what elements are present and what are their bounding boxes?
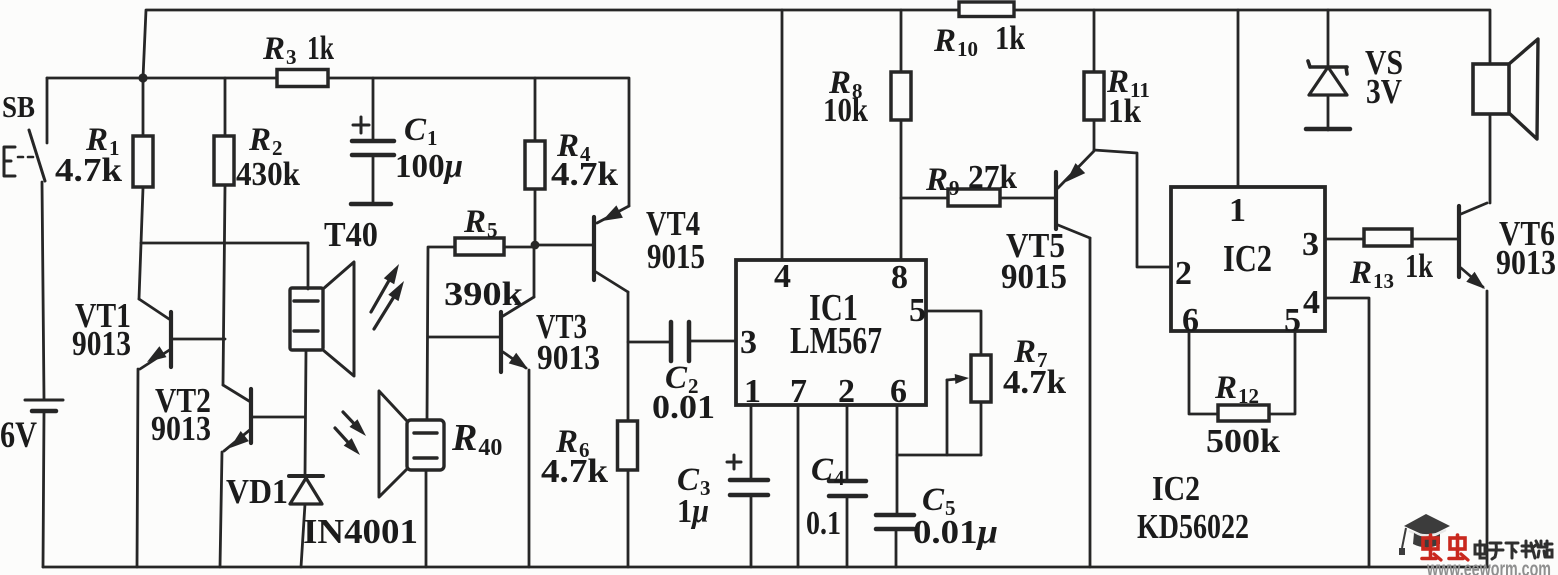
label R13 value 1k (1405, 248, 1433, 285)
wire: R1 to VT1 collector (139, 188, 143, 299)
label VS (1365, 43, 1403, 82)
wire: IC1 pin 1 to C3 (750, 406, 753, 479)
potentiometer R7 (971, 355, 991, 402)
resistor R5 (455, 238, 504, 255)
wire: R1/VT1 node to T40 branch (141, 242, 308, 245)
svg-text:R12: R12 (1214, 370, 1259, 408)
svg-text:100μ: 100μ (395, 148, 463, 185)
op-amp IC1 LM567 box (736, 260, 926, 405)
zener VS bottom terminal bar (1306, 127, 1350, 132)
pin 5 of IC2 (1284, 302, 1301, 339)
svg-text:1μ: 1μ (677, 493, 709, 530)
wire: IC1 pin 4 to top rail (781, 10, 784, 259)
wire: R2 to VT1 base and VT2 collector (223, 186, 225, 385)
transistor VT5 (1056, 151, 1094, 238)
svg-text:R5: R5 (463, 204, 498, 242)
wire: R8 to IC1 pin 8 (900, 120, 903, 259)
svg-text:6: 6 (890, 373, 907, 410)
wire: R5 right end to R4 node (504, 246, 535, 249)
pin 5 of IC1 (909, 292, 926, 329)
transistor VT2 (223, 385, 305, 451)
T40 emitted wave arrow 1 (371, 264, 399, 312)
transducer T40 horn (323, 262, 354, 376)
label C5 (922, 482, 956, 520)
pin 6 of IC1 (890, 373, 907, 410)
watermark red character chong 2 (1449, 535, 1468, 560)
svg-text:9013: 9013 (1496, 243, 1556, 282)
diode VD1 cathode bar (289, 474, 323, 478)
switch SB blade (29, 130, 45, 181)
label IC2 designator (1152, 469, 1200, 508)
transistor VT6 (1459, 203, 1487, 289)
svg-text:4.7k: 4.7k (541, 453, 608, 490)
svg-text:1k: 1k (1108, 93, 1141, 130)
label R5 (463, 204, 498, 242)
watermark text dianzi xiazai zhan (1475, 541, 1552, 559)
svg-text:3: 3 (740, 324, 757, 361)
pin 8 of IC1 (891, 259, 908, 296)
battery GB 6V positive plate (25, 399, 63, 402)
pin 7 of IC1 (790, 373, 807, 410)
svg-text:R2: R2 (248, 122, 283, 160)
svg-text:T40: T40 (324, 215, 378, 254)
wire: R5 left end to R40 top (427, 247, 455, 420)
label IC1 (809, 287, 858, 329)
wire: C1 plates link (372, 155, 375, 204)
pin 2 of IC1 (838, 373, 855, 410)
pin 1 of IC2 (1229, 192, 1246, 229)
wire: rail to R2 (224, 78, 227, 136)
wire: IC2 pin 6 to R12 (1189, 333, 1218, 414)
label R12 (1214, 370, 1259, 408)
svg-text:1: 1 (1229, 192, 1246, 229)
label VT4 type 9015 (647, 237, 705, 276)
label R11 (1106, 64, 1150, 102)
capacitor C5 top plate (876, 513, 914, 518)
wire: C2 to IC1 pin 3 (689, 340, 736, 343)
label R1 value 4.7k (55, 152, 122, 189)
svg-text:2: 2 (1175, 255, 1192, 292)
resistor R6 (618, 421, 638, 470)
pin 4 of IC1 (774, 258, 791, 295)
transducer T40 body (290, 288, 323, 350)
label VS value 3V (1366, 72, 1402, 111)
svg-text:6V: 6V (0, 415, 37, 456)
label R6 (555, 424, 590, 462)
label VD1 (226, 472, 288, 511)
label C1 value 100u (395, 148, 463, 185)
label VT2 (155, 381, 211, 420)
resistor R12 (1218, 405, 1269, 421)
wire: branch down into T40 (307, 243, 310, 289)
wire: VD1 anode to ground (301, 504, 305, 567)
label IC2 inside box (1223, 238, 1272, 280)
svg-text:0.01: 0.01 (652, 389, 715, 426)
label R4 value 4.7k (551, 156, 618, 193)
label R7 (1013, 334, 1048, 372)
wire: R3 supply rail right segment down to VT4 emitter (329, 78, 629, 206)
svg-text:IC2: IC2 (1152, 469, 1200, 508)
resistor R10 (959, 2, 1014, 17)
svg-text:R3: R3 (262, 31, 297, 69)
wire: IC1 pin 5 to R7 top (927, 311, 981, 355)
wire: IC2 pin 1 to top rail (1237, 10, 1240, 186)
wire: positive supply top rail (left part) with corner from R3 rail (143, 10, 959, 78)
wire: IC2 pin 5 to R12 (1269, 333, 1295, 414)
resistor R3 (277, 70, 328, 87)
wire: R4 node down to VT3 collector (533, 247, 536, 297)
wire: IC2 pin 4 to ground (1327, 298, 1369, 567)
wire: R3 supply rail left segment (47, 77, 277, 80)
svg-text:R9: R9 (925, 162, 960, 200)
pin 4 of IC2 (1303, 284, 1320, 321)
wire: VT6 emitter to ground (1486, 291, 1489, 567)
switch SB pushbutton actuator (4, 147, 33, 176)
wire: R7 bottom (980, 402, 983, 455)
zener VS triangle (1309, 67, 1347, 95)
capacitor C4 top plate (829, 479, 866, 484)
loudspeaker body (1473, 64, 1509, 114)
capacitor C1 bottom terminal bar (351, 202, 391, 207)
label C5 value 0.01u (913, 514, 998, 551)
label R5 value 390k (444, 276, 523, 313)
svg-text:390k: 390k (444, 276, 523, 313)
svg-text:9015: 9015 (647, 237, 705, 276)
resistor R13 (1364, 229, 1412, 246)
svg-text:430k: 430k (236, 156, 300, 193)
label 6V (0, 415, 37, 456)
label VT6 type 9013 (1496, 243, 1556, 282)
capacitor C2 left plate (669, 322, 674, 361)
resistor R2 (214, 136, 234, 185)
svg-text:9013: 9013 (72, 324, 131, 363)
wire: VT4 collector to C2 (628, 341, 671, 344)
label VT2 type 9013 (151, 409, 211, 448)
transducer R40 horn (379, 391, 407, 497)
svg-text:4.7k: 4.7k (1003, 364, 1066, 401)
label C3 value 1u (677, 493, 709, 530)
svg-text:5: 5 (1284, 302, 1301, 339)
label VT5 (1006, 226, 1065, 265)
label R3 (262, 31, 297, 69)
label IC2 type KD56022 (1137, 507, 1249, 546)
svg-text:7: 7 (790, 373, 807, 410)
wire: IC1 pin 7 to ground (797, 406, 800, 567)
label R10 (933, 23, 978, 61)
wire: positive supply top rail (right part) down to loudspeaker (1014, 10, 1490, 64)
svg-text:www.eeworm.com: www.eeworm.com (1426, 558, 1551, 575)
wire: R7 bottom to pin6 line (897, 454, 981, 457)
wire: T40 to VT2 base / VD1 (305, 350, 306, 476)
transistor VT4 (594, 205, 629, 292)
wire: R11 to VT5 emitter node (1093, 120, 1096, 150)
label C4 (811, 452, 845, 490)
resistor R1 (133, 136, 153, 187)
label R40 (451, 417, 502, 461)
label C2 (665, 360, 699, 398)
label R6 value 4.7k (541, 453, 608, 490)
wire: rail to R4 (534, 78, 537, 141)
label C4 value 0.1 (806, 505, 841, 542)
label R2 value 430k (236, 156, 300, 193)
svg-text:R40: R40 (451, 417, 502, 461)
capacitor C3 top plate (730, 478, 768, 483)
svg-text:3: 3 (1302, 226, 1319, 263)
svg-text:9013: 9013 (537, 338, 600, 377)
wire: C5 to ground (895, 529, 898, 567)
wire: R9 to VT5 base (1000, 197, 1054, 200)
wire: bottom ground rail (43, 566, 1489, 569)
svg-text:2: 2 (838, 373, 855, 410)
junction dot at R4/R5/VT4 node (531, 241, 540, 250)
wire: VT3 emitter to ground (528, 370, 531, 567)
label R11 value 1k (1108, 93, 1141, 130)
capacitor C1 plus sign (353, 117, 369, 133)
svg-text:LM567: LM567 (790, 320, 882, 362)
zener VS cathode bar (1308, 61, 1347, 74)
svg-text:4.7k: 4.7k (551, 156, 618, 193)
wire: top rail to R11 (1093, 10, 1096, 72)
label R9 (925, 162, 960, 200)
label R1 (85, 122, 120, 160)
pin 3 of IC2 (1302, 226, 1319, 263)
label VT6 (1499, 214, 1555, 253)
svg-text:1k: 1k (307, 30, 334, 67)
svg-text:9013: 9013 (151, 409, 211, 448)
wire: R6 to ground (627, 470, 630, 567)
capacitor C3 bottom plate (730, 493, 768, 498)
junction dot at R1/rail node (138, 73, 147, 82)
svg-text:9015: 9015 (1001, 257, 1067, 296)
svg-text:8: 8 (891, 259, 908, 296)
svg-text:4: 4 (1303, 284, 1320, 321)
wire: VT4 collector down to R6 (627, 292, 630, 421)
resistor R4 (525, 141, 545, 189)
wire: IC2 pin 3 to R13 (1327, 238, 1364, 241)
svg-text:4.7k: 4.7k (55, 152, 122, 189)
svg-text:1k: 1k (995, 20, 1025, 57)
label R13 (1349, 255, 1394, 293)
svg-text:SB: SB (2, 89, 35, 124)
label R12 value 500k (1206, 423, 1280, 460)
svg-text:R13: R13 (1349, 255, 1394, 293)
capacitor C3 plus sign (727, 455, 741, 469)
wire: top rail to zener VS (1327, 10, 1330, 66)
wire: C3 to ground (750, 495, 753, 567)
svg-text:C4: C4 (811, 452, 845, 490)
label VT1 type 9013 (72, 324, 131, 363)
label R3 value 1k (307, 30, 334, 67)
svg-text:KD56022: KD56022 (1137, 507, 1249, 546)
svg-text:27k: 27k (968, 159, 1017, 196)
wire: loudspeaker to VT6 collector (1489, 114, 1492, 203)
watermark url www.eeworm.com (1426, 558, 1551, 575)
svg-text:500k: 500k (1206, 423, 1280, 460)
R40 received wave arrow 1 (343, 412, 366, 436)
svg-text:1: 1 (744, 373, 761, 410)
wire: top rail to R8 (900, 10, 903, 72)
wire: node to VT4 base (537, 244, 592, 247)
loudspeaker horn (1509, 39, 1538, 139)
label C1 (404, 112, 438, 150)
wire: switch SB to rail (46, 78, 49, 143)
svg-text:0.1: 0.1 (806, 505, 841, 542)
label T40 (324, 215, 378, 254)
label R9 value 27k (968, 159, 1017, 196)
capacitor C1 positive plate (352, 139, 394, 144)
wire: R13 to VT6 base (1412, 238, 1457, 241)
label C3 (677, 462, 711, 500)
wire: VT5 emitter node to IC2 pin 2 (1094, 150, 1169, 267)
wire: R7 wiper down (946, 380, 949, 455)
wire: R4 to node (534, 189, 537, 245)
svg-text:R10: R10 (933, 23, 978, 61)
R7 wiper arrow (947, 374, 969, 384)
svg-text:C1: C1 (404, 112, 438, 150)
wire: C4 to ground (846, 496, 849, 567)
label C2 value 0.01 (652, 389, 715, 426)
svg-text:4: 4 (774, 258, 791, 295)
label R10 value 1k (995, 20, 1025, 57)
label VT3 type 9013 (537, 338, 600, 377)
wire: rail to C1 positive (372, 78, 375, 140)
wire: switch SB to battery positive (42, 182, 44, 399)
watermark graduation cap icon (1399, 514, 1450, 555)
transistor VT3 (501, 297, 534, 372)
transistor VT1 (139, 299, 225, 369)
watermark red character chong 1 (1422, 535, 1441, 560)
capacitor C4 bottom plate (829, 494, 866, 499)
resistor R9 (948, 189, 1000, 206)
battery GB 6V negative plate (32, 409, 56, 414)
wire: IC1 pin 2 to C4 (846, 406, 849, 480)
R40 received wave arrow 2 (335, 428, 360, 455)
op-amp IC2 box (1171, 187, 1325, 331)
label R8 value 10k (823, 92, 868, 129)
wire: VT5 collector to ground (1089, 238, 1092, 567)
label VT4 (646, 204, 700, 243)
T40 emitted wave arrow 2 (374, 281, 404, 329)
wire: R8/pin8 node to R9 (901, 197, 948, 200)
wire: VT1 emitter to ground (137, 369, 138, 567)
capacitor C5 bottom plate (876, 527, 914, 532)
label VD1 type IN4001 (303, 512, 418, 551)
wire: VS anode lead (1327, 95, 1330, 130)
svg-text:1k: 1k (1405, 248, 1433, 285)
wire: rail to R1 (142, 78, 145, 136)
pin 1 of IC1 (744, 373, 761, 410)
wire: VT2 emitter to ground (220, 452, 222, 567)
svg-text:0.01μ: 0.01μ (913, 514, 998, 551)
label R4 (556, 128, 591, 166)
wire: R40 bottom to ground (425, 470, 428, 567)
label VT5 type 9015 (1001, 257, 1067, 296)
capacitor C1 negative plate (352, 153, 394, 158)
svg-text:IC2: IC2 (1223, 238, 1272, 280)
pin 2 of IC2 (1175, 255, 1192, 292)
label VT1 (75, 296, 131, 335)
pin 3 of IC1 (740, 324, 757, 361)
wire: battery negative to ground rail (43, 411, 44, 567)
transducer R40 body (407, 420, 444, 470)
svg-text:3V: 3V (1366, 72, 1402, 111)
svg-text:10k: 10k (823, 92, 868, 129)
svg-text:VD1: VD1 (226, 472, 288, 511)
wire: IC1 pin 6 to C5 (896, 406, 899, 514)
svg-text:5: 5 (909, 292, 926, 329)
label R8 (828, 65, 863, 103)
label IC1 type LM567 (790, 320, 882, 362)
label R2 (248, 122, 283, 160)
resistor R11 (1084, 72, 1104, 120)
wire: node to VT3 base (428, 336, 500, 339)
label VT3 (536, 307, 587, 346)
label R7 value 4.7k (1003, 364, 1066, 401)
svg-text:6: 6 (1182, 302, 1199, 339)
resistor R8 (891, 72, 911, 120)
label SB (2, 89, 35, 124)
svg-text:IN4001: IN4001 (303, 512, 418, 551)
pin 6 of IC2 (1182, 302, 1199, 339)
diode VD1 triangle (290, 478, 322, 504)
capacitor C2 right plate (687, 322, 692, 361)
